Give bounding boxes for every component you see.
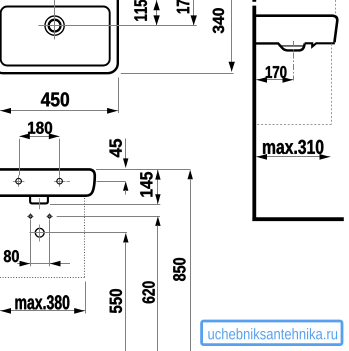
watermark text uchebniksantehnika.ru	[208, 328, 337, 339]
850 dimension line	[190, 179, 192, 351]
180 arrow right	[49, 133, 60, 139]
label 170 (top)	[177, 0, 190, 13]
180 arrow left	[19, 133, 30, 139]
max.310 arrow left	[257, 154, 268, 160]
340 arrow down	[229, 62, 235, 72]
fixing bolt dots	[27, 213, 53, 220]
label 550	[110, 289, 122, 313]
80 arrow left	[20, 261, 31, 267]
620 dimension line	[157, 225, 159, 351]
80 dimension line	[17, 263, 70, 265]
170 top arrow down	[191, 15, 197, 25]
bolt line extension	[57, 216, 160, 218]
45 dimension line upper	[125, 139, 127, 159]
wall	[252, 6, 256, 221]
180 extension line right	[59, 139, 61, 175]
850 arrow up	[188, 170, 193, 180]
label 45	[110, 139, 122, 157]
45 arrow up	[123, 181, 128, 191]
450 extension line (right)	[118, 78, 120, 114]
sink top edge extension line	[96, 169, 191, 171]
550 arrow up	[123, 233, 128, 243]
label 180	[28, 122, 52, 134]
faucet hole	[45, 16, 64, 35]
max.310 dimension line	[256, 156, 330, 158]
mounting holes	[13, 175, 70, 186]
label 620	[142, 281, 154, 303]
dashed clearance (side view)	[256, 0, 336, 125]
drain spigot	[30, 197, 48, 203]
80 arrow right	[50, 261, 61, 267]
550 dimension line	[125, 242, 127, 351]
180 extension line left	[19, 139, 21, 175]
170 side arrow left	[257, 77, 268, 83]
340 dimension line	[231, 0, 233, 72]
max.310 arrow right	[320, 154, 331, 160]
drain dash-dot centerline	[293, 41, 295, 81]
115 arrow down	[153, 15, 159, 25]
45 arrow down	[123, 158, 128, 168]
450 arrow right	[107, 108, 118, 114]
label 340	[213, 8, 224, 33]
115 dimension line	[156, 0, 158, 25]
170 side dimension line	[256, 79, 293, 81]
170 top dimension line	[193, 0, 195, 25]
label max.380	[15, 295, 69, 309]
max.380 extension line	[85, 282, 87, 314]
label 145	[140, 172, 152, 197]
floor	[252, 217, 343, 221]
label max.310	[263, 140, 323, 154]
label 450	[41, 92, 69, 106]
siphon line extension	[50, 232, 127, 234]
basin underside with siphon tray and notch	[305, 43, 335, 46]
170 side arrow right	[283, 77, 294, 83]
115 arrow up	[153, 0, 159, 10]
spigot bottom extension line	[50, 204, 160, 206]
450 arrow left	[1, 108, 12, 114]
outer basin rim (cut off top/left)	[0, 0, 118, 73]
body outline	[0, 169, 95, 195]
max.380 arrow right	[74, 308, 85, 314]
label 170 (side)	[266, 66, 287, 78]
faucet centerlines	[39, 25, 197, 27]
label 80	[4, 250, 19, 262]
max.380 arrow left	[1, 308, 12, 314]
max.380 dimension line	[0, 310, 85, 312]
180 dimension line	[20, 136, 60, 138]
45 dimension line lower	[125, 190, 127, 195]
145 arrow down	[155, 194, 160, 204]
80 extension line right	[49, 220, 51, 266]
450 dimension line	[0, 110, 118, 112]
label 850	[173, 258, 185, 281]
80 extension line left	[30, 220, 32, 266]
620 arrow up	[155, 216, 160, 226]
basin profile	[256, 16, 337, 43]
dotted clearance boundary (front view)	[0, 198, 85, 278]
watermark box uchebniksantehnika.ru	[202, 321, 342, 345]
145 arrow up	[155, 170, 160, 180]
link line from plan bottom edge to 340 line	[121, 73, 234, 75]
label 115	[134, 0, 147, 21]
145 dimension line	[157, 170, 159, 204]
mounting-hole line extension	[97, 181, 126, 183]
siphon circle	[35, 228, 44, 237]
